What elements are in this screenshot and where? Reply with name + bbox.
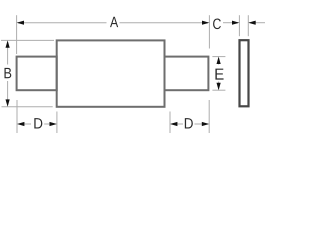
label A xyxy=(110,17,118,27)
label E xyxy=(215,69,223,80)
label B xyxy=(4,68,11,78)
label D left xyxy=(34,118,42,128)
dimension E line with arrows xyxy=(217,57,221,91)
label D right xyxy=(185,118,193,128)
left terminal xyxy=(17,57,57,91)
label C xyxy=(213,19,221,30)
dimension D left line with arrows xyxy=(17,122,57,126)
dimension B extension lines xyxy=(1,40,54,106)
side profile (end view) xyxy=(240,40,249,106)
dimension D left extension lines xyxy=(17,100,57,133)
dimension B line with arrows xyxy=(6,40,10,106)
dimension C extension lines xyxy=(239,15,248,36)
dimension D right line with arrows xyxy=(170,122,209,126)
package body (front view) xyxy=(57,40,165,106)
right terminal xyxy=(165,57,209,91)
dimension C arrows xyxy=(223,21,265,25)
dimension D right extension lines xyxy=(170,100,209,133)
dimension A extension lines xyxy=(17,15,210,54)
dimension A line with arrows xyxy=(17,21,210,25)
dimension E extension lines xyxy=(212,57,225,91)
